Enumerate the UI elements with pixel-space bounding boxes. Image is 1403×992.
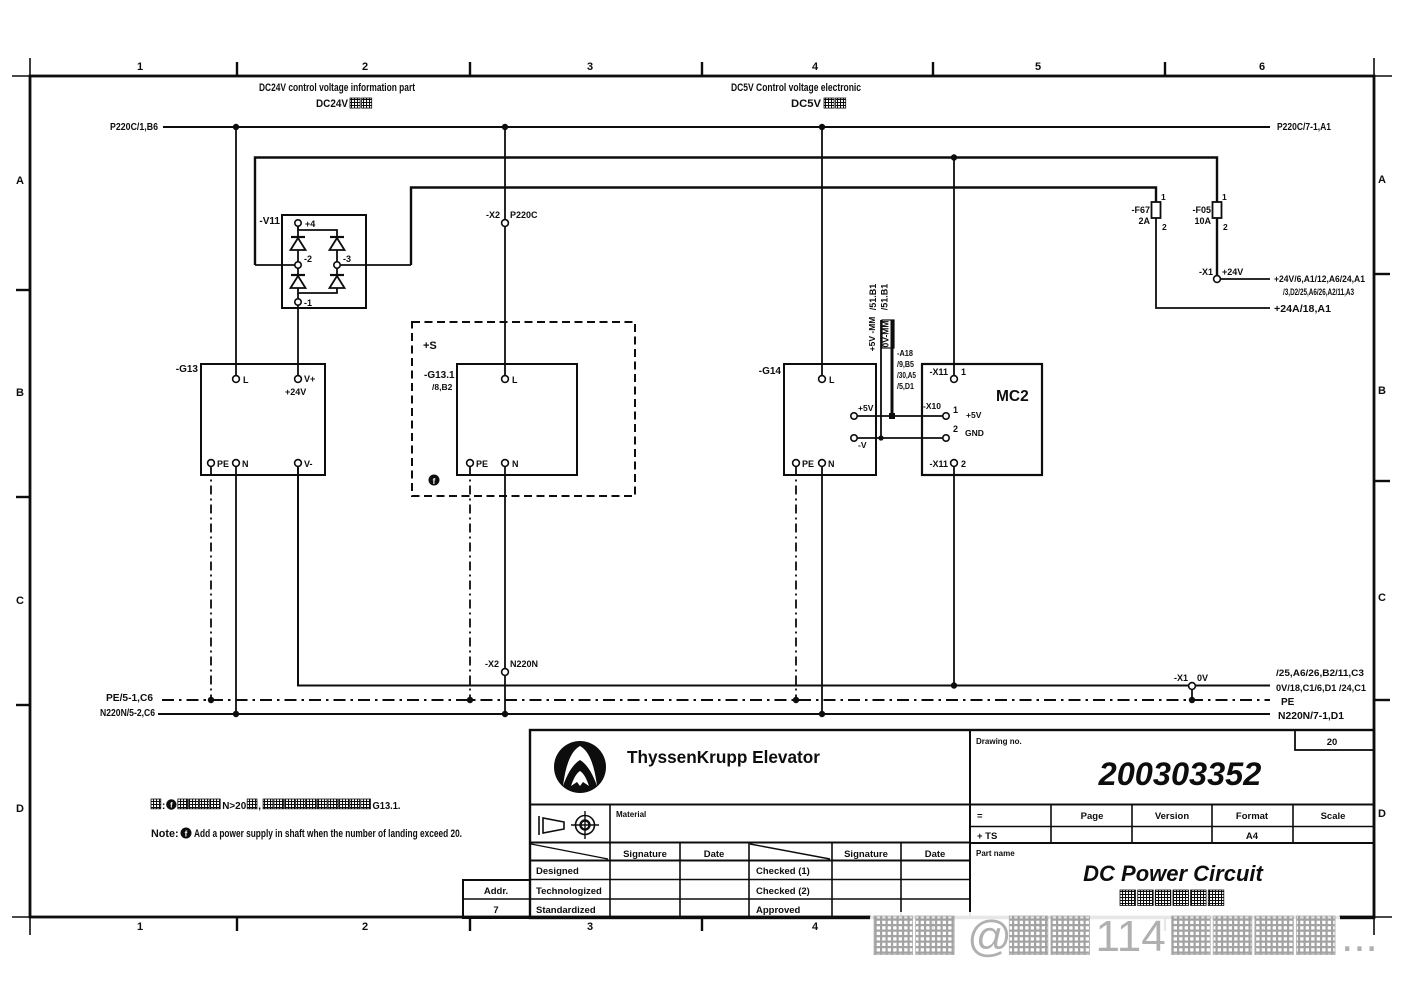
svg-text:1: 1 (961, 367, 966, 377)
svg-text:N>20: N>20 (222, 800, 246, 812)
svg-text:N220N/7-1,D1: N220N/7-1,D1 (1278, 711, 1344, 722)
signature/date headers (623, 849, 945, 860)
junction on P220C at G14 L (819, 124, 825, 130)
svg-text:Add a power supply in shaft wh: Add a power supply in shaft when the num… (194, 828, 462, 840)
svg-text:-G13: -G13 (176, 364, 199, 375)
wire X1 0V to PE bus (1191, 690, 1193, 701)
svg-text:-3: -3 (343, 254, 351, 264)
svg-text:2: 2 (362, 61, 368, 73)
svg-text:10A: 10A (1194, 216, 1211, 226)
MC2 pin X10-1 +5V (923, 401, 982, 420)
svg-text:N: N (242, 459, 249, 469)
svg-text:P220C/7-1,A1: P220C/7-1,A1 (1277, 122, 1331, 133)
svg-text:C: C (16, 595, 24, 607)
note (Chinese) (151, 799, 401, 812)
svg-text:Standardized: Standardized (536, 905, 596, 916)
G13 pin L (233, 375, 249, 385)
svg-text:-1: -1 (304, 298, 312, 308)
svg-text:-2: -2 (304, 254, 312, 264)
wire V11 -1 to G13 V+ (297, 305, 299, 375)
wire G14 -V to MC2 X10-2 (857, 437, 942, 439)
svg-text:Technologized: Technologized (536, 886, 602, 897)
svg-text:/51.B1: /51.B1 (868, 284, 878, 311)
junction 0V rail at MC2 (951, 682, 957, 688)
terminal -X2 P220C (486, 210, 538, 226)
svg-text:-V: -V (858, 440, 867, 450)
svg-text:ThyssenKrupp Elevator: ThyssenKrupp Elevator (627, 747, 820, 767)
svg-text:Drawing no.: Drawing no. (976, 737, 1022, 746)
svg-text:DC24V: DC24V (316, 98, 349, 110)
svg-text:D: D (16, 803, 24, 815)
power supply G13 box (201, 364, 325, 475)
bridge rectifier V11 box (282, 215, 366, 308)
G13.1 pin PE (467, 459, 488, 469)
shaft enclosure +S (dashed) (412, 322, 635, 496)
svg-text:-X1: -X1 (1199, 267, 1213, 277)
junction 0V-MM (878, 435, 883, 440)
wire F67 to +24A (1156, 218, 1270, 308)
svg-text:+ TS: + TS (977, 831, 997, 842)
svg-text:4: 4 (812, 61, 819, 73)
svg-text:f: f (433, 477, 436, 486)
V11 internal wiring bottom (298, 288, 337, 293)
wire G13.1 PE to PE bus (dash-dot) (469, 467, 471, 701)
svg-text:3: 3 (587, 61, 593, 73)
G13 pin PE (208, 459, 229, 469)
diode V11-b (lower left) (291, 268, 306, 288)
svg-text:GND: GND (965, 428, 984, 438)
header DC5V Control voltage electronic (731, 82, 861, 110)
svg-text:/3,D2/25,A6/26,A2/11,A3: /3,D2/25,A6/26,A2/11,A3 (1283, 287, 1354, 297)
svg-text:A: A (16, 175, 24, 187)
wire from P220C to G14 pin L (821, 127, 823, 376)
svg-text:-G13.1: -G13.1 (424, 370, 455, 381)
wire 3 (to F67) (411, 188, 1156, 266)
riser 0V-MM (880, 320, 882, 438)
svg-text:L: L (512, 375, 518, 385)
svg-text:C: C (1378, 592, 1386, 604)
svg-text:DC24V control voltage informat: DC24V control voltage information part (259, 82, 415, 94)
G14 pin N (819, 459, 835, 469)
svg-text:V-: V- (304, 459, 313, 469)
svg-text:2: 2 (1223, 222, 1228, 232)
svg-text:+5V: +5V (858, 403, 874, 413)
svg-text:-V11: -V11 (259, 216, 280, 227)
header DC24V control voltage information part (259, 82, 415, 110)
title block (530, 730, 1374, 918)
svg-text:-X1: -X1 (1174, 673, 1188, 683)
fuse F67 2A (1131, 192, 1167, 232)
wire F05 to X1 +24V (1216, 218, 1218, 276)
crosshair symbol (571, 811, 599, 839)
wire from wire2 to MC2 pin X11-1 (953, 158, 955, 376)
svg-text:Addr.: Addr. (484, 886, 508, 897)
svg-text:-A18: -A18 (897, 349, 914, 358)
svg-text:-G14: -G14 (759, 366, 782, 377)
wire G13 N to N220N bus (235, 467, 237, 715)
svg-text:L: L (829, 375, 835, 385)
part name (976, 849, 1265, 886)
svg-text:1: 1 (137, 921, 143, 933)
svg-text:-X11: -X11 (929, 367, 948, 377)
fuse F05 10A (1192, 192, 1228, 232)
G13 pin V- (295, 459, 313, 469)
svg-text:L: L (243, 375, 249, 385)
svg-text:/5,D1: /5,D1 (897, 382, 914, 391)
junction on wire2 at MC2 X11-1 (951, 154, 957, 160)
V11 terminal -2 (295, 250, 312, 268)
svg-text:N220N: N220N (510, 659, 538, 669)
svg-text:2: 2 (362, 921, 368, 933)
svg-text:MC2: MC2 (996, 388, 1029, 405)
svg-text:/9,B5: /9,B5 (897, 360, 914, 369)
svg-text:=: = (977, 811, 983, 822)
svg-text:+5V: +5V (966, 410, 982, 420)
V11 terminal -1 (295, 293, 312, 308)
svg-text:Signature: Signature (844, 849, 888, 860)
svg-text:Page: Page (1081, 811, 1104, 822)
junction PE at G13 (208, 697, 214, 703)
page/version/format/scale row (970, 805, 1374, 844)
svg-text:2: 2 (961, 459, 966, 469)
svg-text:2A: 2A (1138, 216, 1150, 226)
svg-text:20: 20 (1327, 737, 1338, 748)
svg-text:-X10: -X10 (923, 401, 941, 411)
junction +5V-MM (889, 413, 895, 419)
svg-text:+24V: +24V (285, 387, 306, 397)
svg-text:-X11: -X11 (929, 459, 948, 469)
svg-text:Note:: Note: (151, 828, 179, 840)
approval rows (536, 866, 810, 916)
V11 terminal -3 (334, 250, 351, 268)
junction N at X2/G13.1 (502, 711, 508, 717)
svg-text:Format: Format (1236, 811, 1269, 822)
wire G14 +5V to MC2 X10-1 (857, 415, 942, 417)
net label 0V destinations (1276, 668, 1366, 693)
svg-text:PE: PE (217, 459, 229, 469)
junction on P220C at G13 L (233, 124, 239, 130)
ThyssenKrupp logo (554, 741, 606, 793)
svg-text:Checked (1): Checked (1) (756, 866, 810, 877)
svg-text:-X2: -X2 (485, 659, 499, 669)
junction on P220C at X2 (502, 124, 508, 130)
G14 pin PE (793, 459, 814, 469)
svg-text:Signature: Signature (623, 849, 667, 860)
terminal -X2 N220N (485, 659, 538, 675)
svg-text:PE/5-1,C6: PE/5-1,C6 (106, 693, 153, 704)
terminal -X1 0V (1174, 673, 1208, 689)
svg-text:Date: Date (704, 849, 725, 860)
MC2 pin X11-2 (929, 459, 966, 469)
svg-text:7: 7 (493, 905, 498, 916)
svg-text:114: 114 (1096, 912, 1166, 961)
svg-text:0V-MM: 0V-MM (881, 321, 891, 348)
svg-text:/8,B2: /8,B2 (432, 382, 453, 392)
svg-text:Designed: Designed (536, 866, 579, 877)
diode V11-a (upper left) (291, 236, 305, 238)
svg-text:P220C: P220C (510, 210, 538, 220)
svg-text:V+: V+ (304, 374, 315, 384)
svg-text:N: N (828, 459, 835, 469)
wire G14 N to N bus (821, 467, 823, 715)
svg-text:Date: Date (925, 849, 946, 860)
svg-text:...: ... (1341, 912, 1378, 961)
part name Chinese (1120, 890, 1136, 906)
PE bus (dash-dot) (162, 699, 1270, 701)
svg-text:-F67: -F67 (1131, 205, 1150, 215)
wire V11 -2 to wire2 corner (255, 264, 295, 266)
svg-text:DC5V: DC5V (791, 98, 822, 110)
svg-text:Version: Version (1155, 811, 1190, 822)
svg-text:1: 1 (1222, 192, 1227, 202)
svg-text:2: 2 (953, 424, 958, 434)
diode V11-c (upper right) (330, 236, 344, 238)
svg-text:G13.1.: G13.1. (373, 800, 401, 812)
svg-text:4: 4 (812, 921, 819, 933)
junction N at G13 (233, 711, 239, 717)
svg-text:Checked (2): Checked (2) (756, 886, 810, 897)
svg-text:1: 1 (1161, 192, 1166, 202)
junction N at G14 (819, 711, 825, 717)
note (English) (151, 828, 462, 841)
svg-text:+4: +4 (305, 219, 315, 229)
svg-text:/25,A6/26,B2/11,C3: /25,A6/26,B2/11,C3 (1276, 668, 1364, 678)
svg-text:Scale: Scale (1321, 811, 1346, 822)
power supply G14 box (784, 364, 876, 475)
V11 internal wiring top (298, 226, 337, 237)
wire G13.1 N to terminal X2 N220N (504, 467, 506, 669)
drawing no. block (976, 730, 1374, 792)
wire X1 +24V to edge (1220, 278, 1270, 280)
svg-text:1: 1 (953, 405, 958, 415)
svg-text:200303352: 200303352 (1098, 756, 1262, 792)
svg-text:+24V/6,A1/12,A6/24,A1: +24V/6,A1/12,A6/24,A1 (1274, 274, 1365, 284)
label 0V-MM (boxed) (881, 320, 895, 348)
riser +5V-MM (891, 320, 894, 416)
wire G13 V- to 0V rail (298, 467, 1270, 686)
G13 pin V+ (+24V) (285, 374, 315, 397)
projection symbol (539, 816, 564, 835)
diode V11-d (lower right) (330, 268, 345, 288)
watermark (870, 912, 1378, 961)
power supply G13.1 box (457, 364, 577, 475)
svg-text:@: @ (967, 912, 1012, 961)
svg-text:0V: 0V (1197, 673, 1208, 683)
svg-text:+5V -MM: +5V -MM (867, 317, 877, 352)
svg-text:D: D (1378, 808, 1386, 820)
svg-text:PE: PE (802, 459, 814, 469)
wire X2 N220N to N bus (504, 676, 506, 715)
svg-text:+S: +S (423, 340, 437, 352)
net label +24V destinations (1274, 274, 1365, 297)
label -G13.1 (424, 370, 455, 392)
svg-text:/30,A5: /30,A5 (897, 371, 916, 380)
svg-text:N: N (512, 459, 519, 469)
G14 pin -V (851, 435, 867, 450)
svg-text:A: A (1378, 174, 1386, 186)
svg-text:6: 6 (1259, 61, 1265, 73)
svg-text:3: 3 (587, 921, 593, 933)
svg-text:-F05: -F05 (1192, 205, 1211, 215)
svg-text:f: f (185, 830, 188, 839)
svg-text:1: 1 (137, 61, 143, 73)
svg-text:N220N/5-2,C6: N220N/5-2,C6 (100, 708, 155, 719)
Addr box (463, 880, 530, 918)
svg-text::: : (162, 800, 166, 812)
wire G13 PE to PE bus (dash-dot) (210, 467, 212, 701)
wire from P220C to G13 pin L (235, 127, 237, 376)
G13.1 pin L (502, 375, 518, 385)
svg-text:2: 2 (1162, 222, 1167, 232)
svg-text:P220C/1,B6: P220C/1,B6 (110, 122, 158, 133)
svg-text:PE: PE (476, 459, 488, 469)
svg-text:DC Power Circuit: DC Power Circuit (1083, 861, 1264, 886)
svg-text:B: B (1378, 385, 1386, 397)
svg-text:/51.B1: /51.B1 (880, 284, 890, 311)
svg-text:,: , (258, 800, 261, 812)
svg-text:+24V: +24V (1222, 267, 1243, 277)
svg-text:B: B (16, 387, 24, 399)
junction PE at G13.1 (467, 697, 473, 703)
wire P220C horizontal bus (163, 126, 1270, 128)
V11 terminal +4 (295, 219, 315, 229)
svg-text:-X2: -X2 (486, 210, 500, 220)
wire G14 PE to PE bus (dash-dot) (795, 467, 797, 701)
svg-text:5: 5 (1035, 61, 1041, 73)
svg-text:+24A/18,A1: +24A/18,A1 (1274, 304, 1331, 315)
terminal -X1 +24V (1199, 267, 1243, 282)
N220N bus (158, 713, 1270, 715)
svg-text:Approved: Approved (756, 905, 801, 916)
wire V11 -3 to wire3 corner (340, 264, 411, 266)
MC2 pin X10-2 GND (943, 424, 984, 441)
G14 pin L (819, 375, 835, 385)
svg-text:0V/18,C1/6,D1 /24,C1: 0V/18,C1/6,D1 /24,C1 (1276, 683, 1366, 693)
G13.1 pin N (502, 459, 519, 469)
MC2 pin X11-1 (929, 367, 966, 382)
note marker f in enclosure (429, 475, 440, 487)
junction PE at G14 (793, 697, 799, 703)
svg-text:PE: PE (1281, 697, 1295, 708)
wire from P220C to terminal X2 (504, 127, 506, 220)
G13 pin N (233, 459, 249, 469)
svg-text:DC5V Control voltage electroni: DC5V Control voltage electronic (731, 82, 861, 94)
wire MC2 X11-2 to 0V rail (953, 467, 955, 686)
svg-text:Material: Material (616, 810, 646, 819)
controller MC2 box (922, 364, 1042, 475)
wire X2 to G13.1 pin L (504, 227, 506, 376)
reference label -A18 (897, 349, 916, 391)
G14 pin +5V (851, 403, 874, 419)
wire 2 (to F05 and MC2 X11) (255, 158, 1217, 266)
svg-text:A4: A4 (1246, 831, 1259, 842)
svg-text:Part name: Part name (976, 849, 1015, 858)
